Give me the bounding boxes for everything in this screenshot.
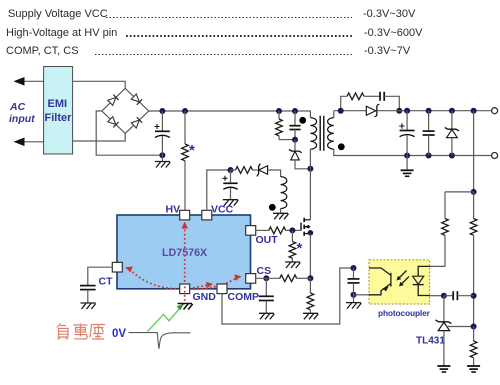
- node phototransistor collector: [351, 265, 357, 271]
- ground VCC capacitor (hatched): [223, 200, 239, 206]
- node CS pin: [263, 275, 269, 281]
- svg-text:input: input: [9, 113, 35, 125]
- node ref/cap right: [471, 293, 477, 299]
- CT timing capacitor C2: [80, 267, 112, 303]
- svg-text:VCC: VCC: [211, 204, 234, 216]
- output terminal positive: [492, 108, 498, 114]
- MOSFET Q1: [301, 218, 313, 236]
- node output cap bottom: [404, 153, 410, 159]
- wire aux winding to ground: [280, 209, 282, 214]
- node TL431 ref: [471, 324, 477, 330]
- svg-text:Supply Voltage VCC: Supply Voltage VCC: [8, 8, 108, 20]
- svg-text:CT: CT: [99, 276, 114, 288]
- AC input arrow top: [14, 77, 44, 86]
- svg-text:OUT: OUT: [256, 234, 279, 246]
- LED bias resistor R9: [430, 192, 449, 267]
- svg-text:COMP: COMP: [228, 291, 260, 303]
- transformer primary polarity dot: [299, 117, 306, 124]
- wire clamp RC junction: [279, 139, 295, 141]
- negative spike waveform: [129, 333, 191, 349]
- transformer T1 secondary winding: [328, 118, 334, 150]
- svg-text:*: *: [189, 142, 195, 159]
- output capacitor C9 ceramic: [423, 111, 435, 156]
- transformer core: [320, 116, 324, 151]
- node divider top: [471, 189, 477, 195]
- output voltage sense wire: [473, 111, 475, 192]
- node snubber right: [396, 108, 402, 114]
- red stress arrow GND to CT: [125, 267, 185, 289]
- node bulk cap top: [159, 108, 165, 114]
- bridge diode top-left: [108, 95, 119, 106]
- output terminal return: [492, 153, 498, 159]
- TL431 compensation capacitor C10: [444, 291, 474, 300]
- spec line 1: Supply Voltage VCC: [8, 8, 416, 20]
- output return rail: [334, 149, 492, 155]
- COMP feedback wire to photocoupler: [222, 268, 354, 324]
- node TL431 cathode: [441, 293, 447, 299]
- char 負: [57, 324, 68, 340]
- node clamp junction: [292, 137, 298, 143]
- pin GND: [180, 284, 217, 303]
- svg-text:*: *: [297, 240, 303, 257]
- ground sense resistor (hatched): [303, 313, 318, 319]
- clamp capacitor C4: [289, 111, 300, 140]
- wire MOSFET source to CS node: [309, 234, 311, 278]
- pin OUT: [246, 226, 279, 246]
- node snubber left: [338, 108, 344, 114]
- VCC rectifier diode D2 (points left): [257, 164, 281, 177]
- red stress arrow GND to CS: [185, 274, 242, 289]
- svg-text:Filter: Filter: [45, 112, 73, 124]
- negative voltage label (CJK): [57, 323, 105, 339]
- CS series resistor R6: [256, 275, 311, 282]
- ground below GND pin (hatched): [178, 304, 193, 310]
- ground TL431 (3-bar): [437, 366, 450, 372]
- red dotted lead through GND pin to ground: [184, 287, 186, 303]
- transformer secondary polarity dot: [338, 143, 345, 150]
- ground photocoupler (hatched): [346, 303, 361, 309]
- bulk capacitor C1 electrolytic: [155, 111, 170, 155]
- wire EMI bottom output to bridge bottom corner: [73, 133, 126, 141]
- pin CT: [99, 262, 123, 287]
- CS filter capacitor C5: [259, 278, 274, 313]
- startup resistor R1: [182, 111, 189, 210]
- VCC capacitor C3 electrolytic: [223, 170, 238, 200]
- red stress arrow GND to COMP: [185, 282, 213, 290]
- ground aux winding (hatched): [273, 213, 289, 219]
- output snubber resistor R8: [341, 93, 380, 111]
- node sense line top: [471, 108, 477, 114]
- output zener diode D4: [445, 111, 459, 156]
- node VCC: [228, 167, 234, 173]
- auxiliary winding: [281, 177, 287, 209]
- char 電: [74, 323, 88, 339]
- ground CT capacitor (hatched): [81, 303, 96, 309]
- output rectifier diode D3 (points right): [366, 104, 379, 116]
- wire primary bottom to MOSFET drain: [309, 149, 311, 220]
- clamp diode D1 (points up): [289, 140, 311, 169]
- char 壓: [90, 325, 105, 340]
- svg-text:CS: CS: [257, 265, 272, 277]
- clamp resistor R3: [276, 111, 283, 140]
- svg-text:0V: 0V: [112, 328, 126, 340]
- node clamp capacitor top: [292, 108, 298, 114]
- node zener bottom: [449, 153, 455, 159]
- wire EMI top output to bridge top corner: [73, 81, 126, 88]
- TL431 U3: [436, 296, 474, 366]
- svg-text:photocoupler: photocoupler: [378, 308, 431, 318]
- node sense junction: [307, 275, 313, 281]
- bridge diode bottom-right: [131, 117, 142, 128]
- spec line 2: High-Voltage at HV pin: [6, 27, 423, 39]
- divider upper resistor R10: [470, 192, 477, 327]
- op-amp controller IC U1 LD7576X: [117, 215, 251, 289]
- output capacitor C8 electrolytic: [399, 111, 414, 156]
- bridge rectifier BR1: [102, 88, 149, 133]
- node zener top: [449, 108, 455, 114]
- output rail positive: [377, 110, 492, 112]
- node startup resistor top: [182, 108, 188, 114]
- ground gate pulldown (hatched): [285, 262, 300, 268]
- compensation capacitor C6: [348, 268, 360, 303]
- node cap2 top: [426, 108, 432, 114]
- wire VCC pin to VCC node: [207, 170, 230, 210]
- svg-text:COMP, CT, CS: COMP, CT, CS: [6, 45, 79, 57]
- ground output cap (3-bar): [401, 156, 414, 177]
- svg-text:-0.3V~30V: -0.3V~30V: [363, 8, 416, 20]
- pin VCC: [202, 204, 234, 220]
- gate pulldown resistor R5: [289, 230, 296, 262]
- svg-text:GND: GND: [193, 291, 217, 303]
- node phototransistor emitter: [351, 292, 357, 298]
- svg-text:HV: HV: [166, 204, 181, 216]
- aux winding polarity dot: [269, 204, 276, 211]
- spec line 3: COMP, CT, CS: [6, 45, 411, 57]
- output snubber capacitor C7: [380, 92, 399, 111]
- svg-text:-0.3V~7V: -0.3V~7V: [364, 45, 411, 57]
- phototransistor: [369, 268, 391, 295]
- bridge diode top-right: [131, 94, 142, 105]
- svg-text:EMI: EMI: [48, 98, 68, 110]
- svg-text:LD7576X: LD7576X: [162, 247, 208, 259]
- ground bulk cap (hatched): [155, 155, 170, 167]
- wire bridge negative return to ground node: [96, 111, 162, 155]
- AC input label: [9, 101, 35, 125]
- node clamp resistor top: [276, 108, 282, 114]
- node cap2 bottom: [426, 153, 432, 159]
- node gate: [289, 227, 295, 233]
- bridge diode bottom-left: [108, 116, 119, 127]
- node bulk cap bottom: [159, 152, 165, 158]
- wire secondary top to output rectifier: [333, 111, 335, 118]
- gate resistor R4: [256, 227, 302, 234]
- divider lower resistor R11: [470, 327, 477, 366]
- LED: [418, 266, 429, 295]
- wire emitter: [354, 294, 370, 296]
- AC input arrow bottom: [14, 138, 44, 147]
- light arrows: [398, 271, 409, 286]
- HV bus wire from bridge to transformer primary: [149, 111, 311, 118]
- VCC series resistor R2: [231, 167, 258, 174]
- red stress arrow GND to HV: [182, 222, 188, 287]
- wire divider top to LED branch: [445, 191, 474, 193]
- pin HV: [166, 204, 190, 220]
- EMI filter block: [44, 67, 73, 155]
- wire LED cathode to TL431 node: [430, 295, 444, 297]
- svg-text:AC: AC: [9, 101, 26, 113]
- svg-text:TL431: TL431: [416, 336, 445, 347]
- transformer T1 primary winding: [310, 118, 316, 150]
- ground CS capacitor (hatched): [259, 313, 274, 319]
- green surge arrow: [148, 304, 184, 331]
- svg-text:High-Voltage at HV pin: High-Voltage at HV pin: [6, 27, 117, 39]
- current sense resistor R7: [307, 278, 314, 313]
- pin CS: [246, 265, 271, 283]
- ground divider (3-bar): [467, 366, 480, 372]
- svg-text:-0.3V~600V: -0.3V~600V: [364, 27, 423, 39]
- node output cap top: [404, 108, 410, 114]
- node clamp to primary-bottom: [307, 166, 313, 172]
- photocoupler U2: [369, 260, 430, 304]
- pin COMP: [217, 284, 259, 303]
